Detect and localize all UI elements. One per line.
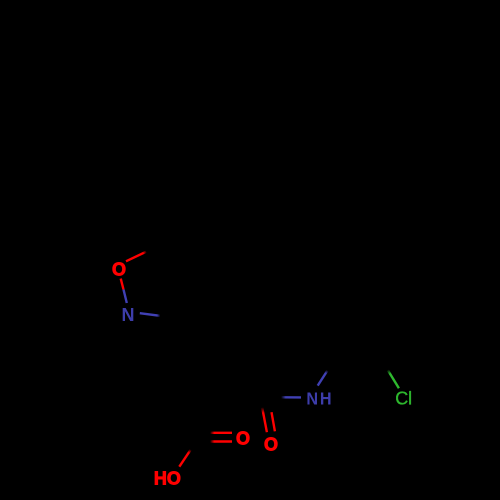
bond O1-N1 red half (isoxazole O-N upper part) (121, 279, 124, 290)
bond Caryl-Cl (green half, aryl carbon to chlorine) (388, 370, 399, 388)
svg-text:HO: HO (154, 468, 181, 488)
svg-text:O: O (236, 428, 250, 448)
bond O1-N1 blue half (isoxazole O-N lower part) (124, 290, 127, 304)
bond N2-Caryl (blue half, amide N up to aryl ring) (318, 371, 328, 386)
bond N1-C3 (blue half, isoxazole N to C3) (140, 313, 160, 316)
bond C=O2 double bond upper line (carboxylic acid) (210, 432, 232, 434)
bond O4-C (red half, carboxylic acid HO to carbon) (179, 450, 190, 467)
bond C=O3 double bond right line (amide carbonyl) (272, 412, 275, 431)
bond N2-C carbonyl (blue half, amide N to C=O) (281, 396, 301, 399)
bond O1-C5 (red half, isoxazole O to C5) (126, 252, 146, 262)
svg-text:Cl: Cl (395, 389, 412, 409)
bond C=O2 double bond lower line (carboxylic acid) (210, 440, 232, 442)
bond C=O3 double bond left line (amide carbonyl) (262, 408, 267, 433)
svg-text:NH: NH (306, 389, 333, 409)
svg-text:N: N (122, 305, 135, 325)
svg-text:O: O (264, 435, 278, 455)
svg-text:O: O (112, 260, 126, 280)
